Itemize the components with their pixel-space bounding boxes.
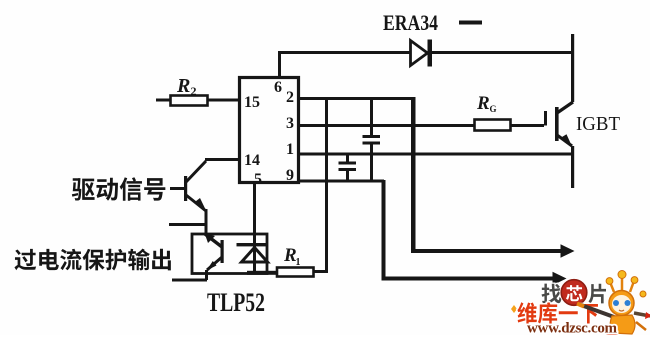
svg-text:2: 2 — [191, 84, 197, 98]
opto phototransistor — [205, 233, 224, 271]
wire pin14 line — [205, 158, 240, 161]
transistor IGBT — [544, 102, 573, 148]
wire pin3/gate line — [299, 124, 475, 127]
wire pin6 vertical — [278, 51, 281, 79]
svg-text:www.dzsc.com: www.dzsc.com — [527, 321, 618, 336]
svg-text:14: 14 — [244, 152, 260, 169]
dash mark right of ERA34 — [459, 21, 482, 25]
wire pin1 line — [299, 153, 573, 156]
wire pin9 line — [299, 180, 384, 183]
wire V1 vertical x326 — [325, 97, 328, 273]
wire OC output stub top — [169, 223, 207, 226]
wire collector rail vertical — [571, 34, 574, 102]
svg-text:1: 1 — [286, 141, 294, 158]
svg-text:1: 1 — [296, 257, 301, 268]
svg-text:3: 3 — [286, 115, 294, 132]
svg-text:6: 6 — [274, 79, 282, 96]
capacitor C2 branch x347 — [339, 154, 357, 181]
wire LED to R1 — [247, 271, 278, 275]
opto LED D1 — [237, 243, 268, 273]
svg-text:9: 9 — [286, 167, 294, 184]
wire V382 vertical — [382, 180, 386, 279]
wire V4 vertical x412 — [411, 97, 416, 252]
label drive signal 驱动信号 — [72, 177, 165, 201]
svg-text:R: R — [176, 75, 190, 97]
wire top rail right of diode — [431, 51, 574, 54]
svg-text:ERA34: ERA34 — [383, 10, 438, 35]
wire IGBT emitter vertical — [571, 146, 574, 188]
svg-text:IGBT: IGBT — [576, 113, 620, 135]
resistor R2 body — [171, 96, 208, 106]
svg-text:G: G — [490, 104, 497, 114]
capacitor C1 branch x371 — [363, 97, 381, 182]
wire pin2 line — [299, 97, 414, 100]
svg-text:2: 2 — [286, 89, 294, 106]
optocoupler U2 box — [192, 234, 267, 274]
wire R2 input stub — [156, 99, 171, 102]
resistor RG body — [475, 120, 511, 131]
wire OC output stub bottom — [172, 279, 207, 282]
wire pin5 vertical / LED anode lead — [253, 182, 256, 246]
wire R2 to pin15 — [207, 99, 240, 102]
wire top rail left of diode — [278, 51, 411, 54]
label overcurrent protection output 过电流保护输出 — [14, 249, 170, 271]
arrow output 2 — [382, 272, 567, 286]
wire RG to gate — [510, 124, 544, 127]
svg-text:TLP52: TLP52 — [207, 288, 265, 317]
wire V1 bottom to R1 — [313, 270, 328, 273]
wire Q1 emitter vertical — [205, 209, 208, 235]
svg-text:R: R — [476, 93, 490, 114]
arrow output 1 — [411, 244, 575, 258]
wire opto emitter exit — [205, 270, 208, 280]
IC U1 box — [240, 78, 299, 183]
transistor Q1 — [170, 161, 207, 212]
svg-text:15: 15 — [244, 94, 260, 111]
watermark logo 找芯片 维库一下 www.dzsc.com — [511, 271, 650, 337]
diode ERA34 — [411, 40, 433, 67]
resistor R1 body — [277, 268, 314, 277]
